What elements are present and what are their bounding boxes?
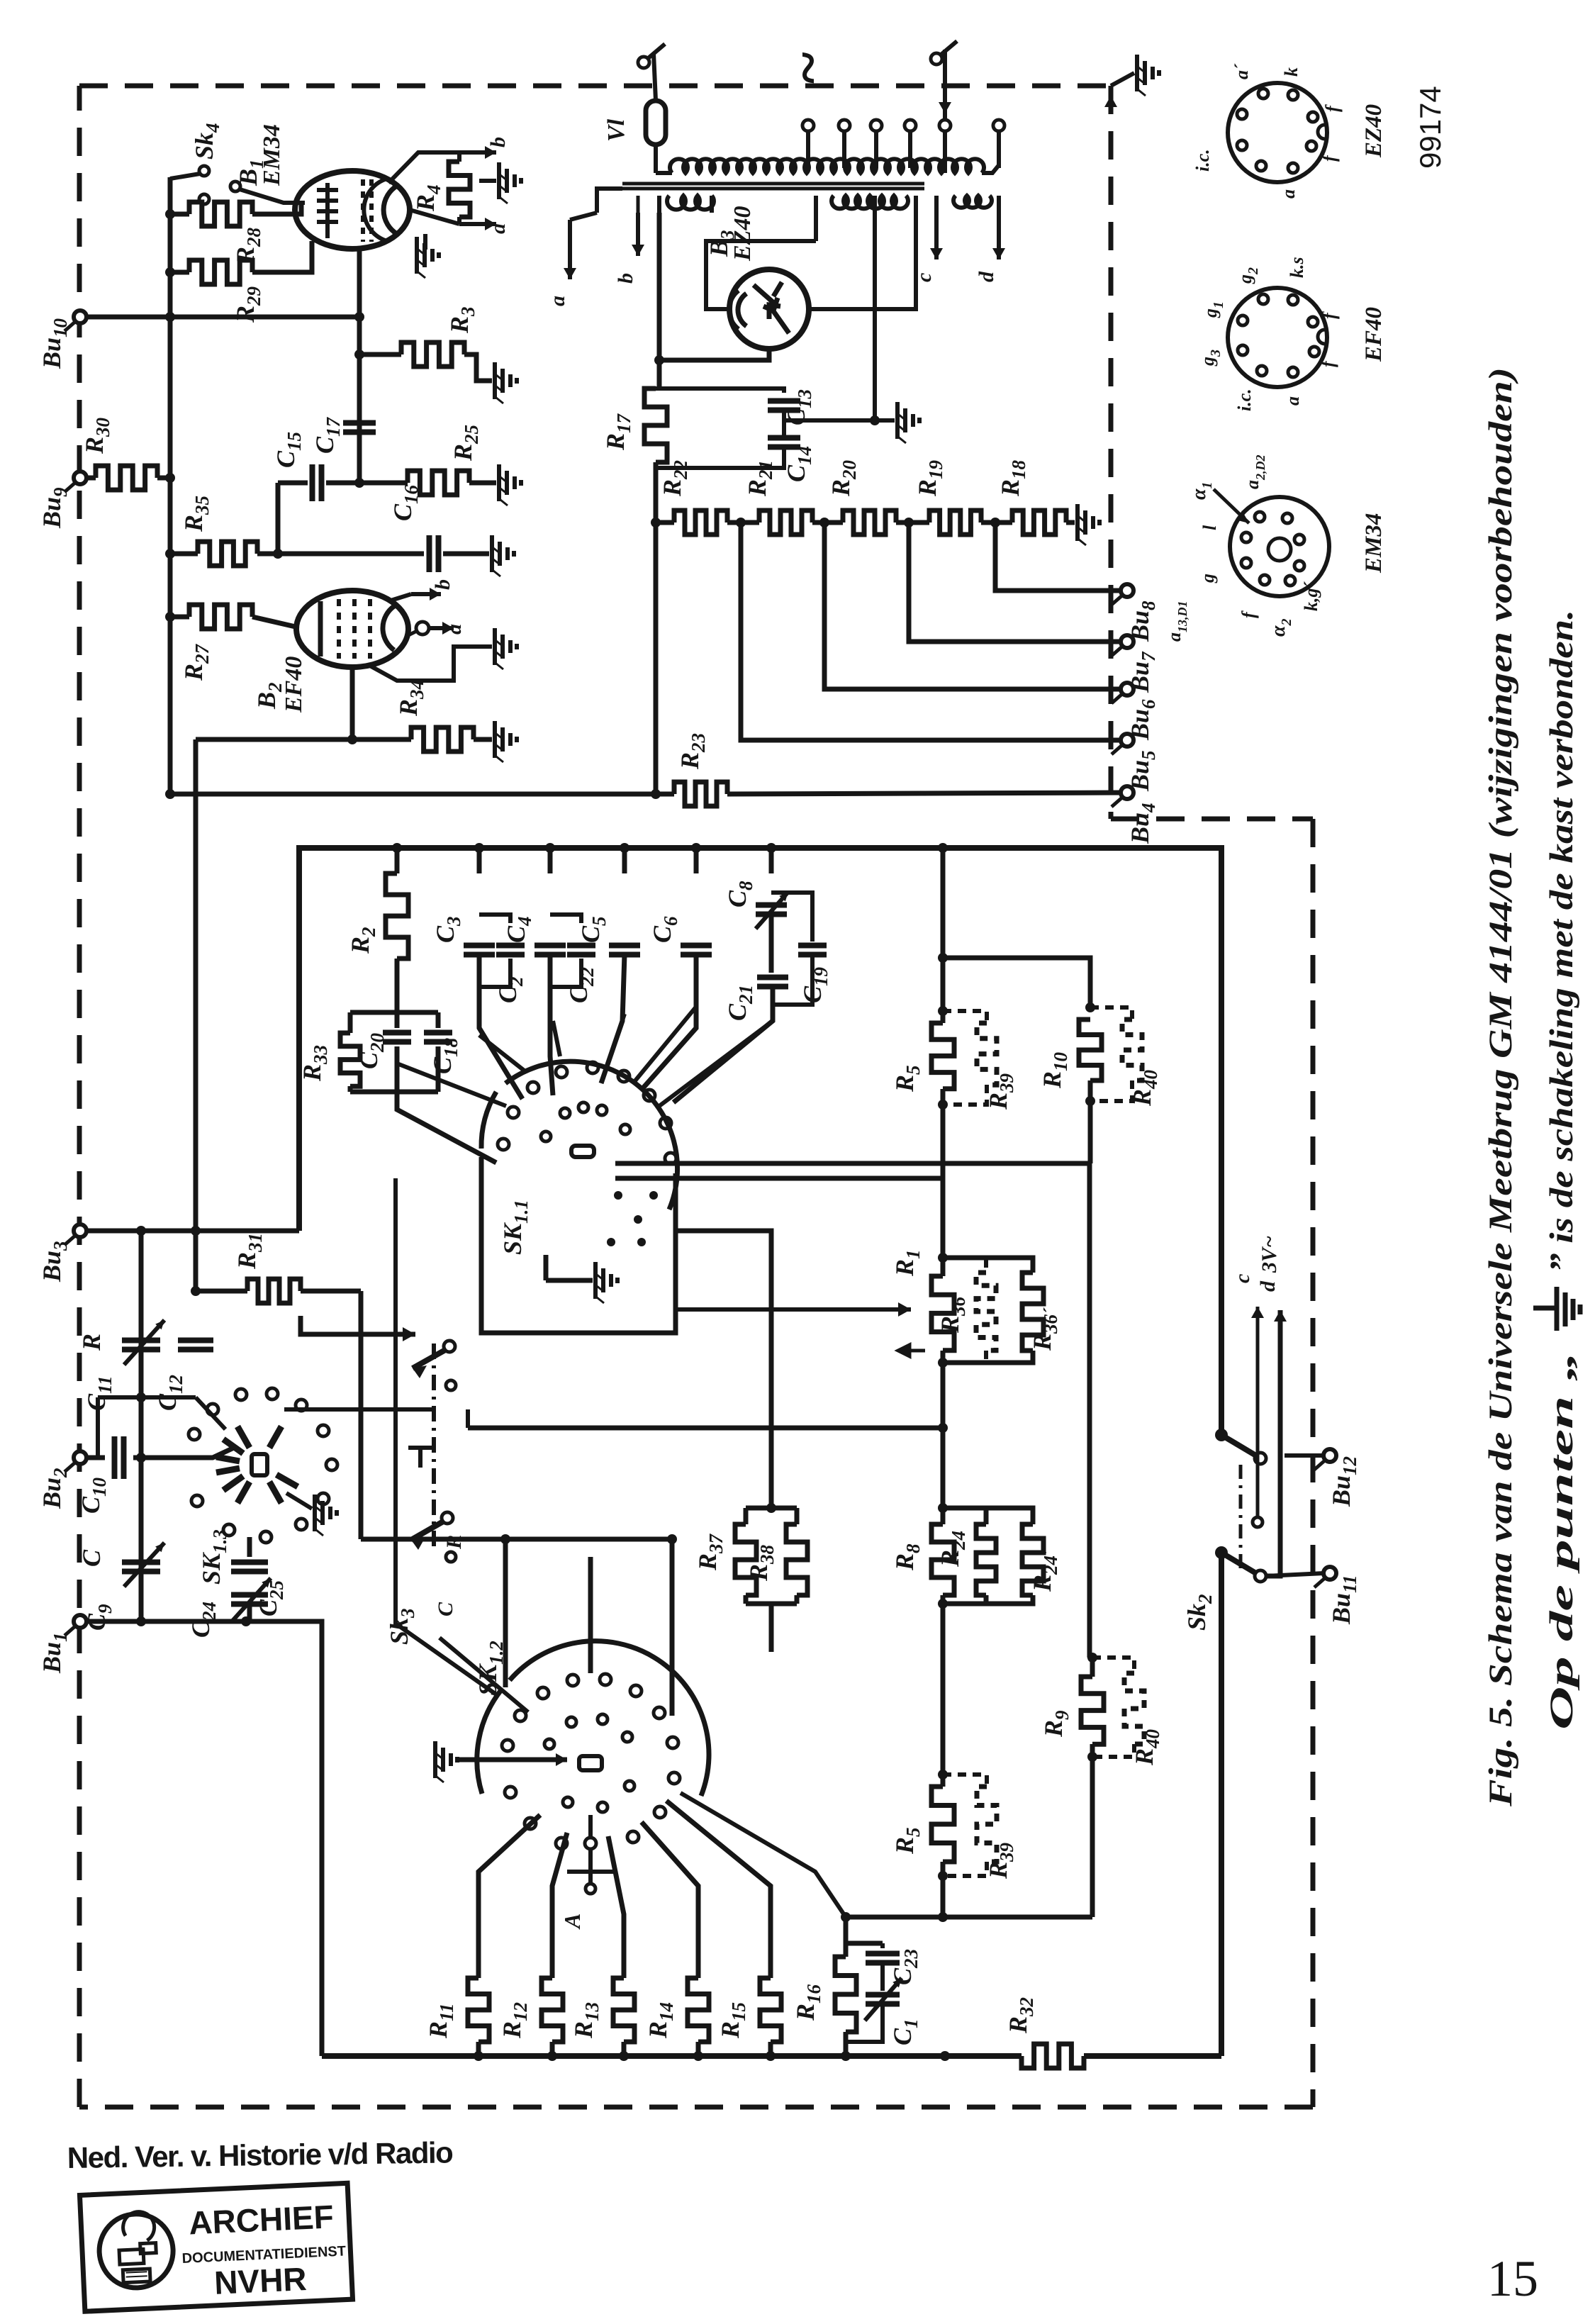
svg-text:c: c	[1231, 1274, 1254, 1283]
svg-text:R: R	[77, 1334, 106, 1351]
SK1.3 ground	[286, 1493, 312, 1509]
transformer taps	[802, 120, 814, 131]
right verticals down	[1087, 1163, 1092, 1658]
wire C15-R36 vertical	[276, 483, 281, 554]
capacitor C12	[178, 1341, 213, 1350]
terminal Bu5	[1121, 734, 1134, 747]
capacitor C22	[550, 915, 581, 923]
ground near R4	[479, 179, 496, 183]
svg-text:99174: 99174	[1414, 86, 1447, 169]
resistor R40 dashed lower	[1092, 1658, 1134, 1673]
capacitor C19 bracket	[771, 893, 812, 942]
resistor R39 dashed	[943, 1011, 987, 1023]
resistor R12	[552, 1833, 567, 1978]
wire B2 cathode down	[350, 667, 355, 739]
SK1.1 inner contacts	[614, 1191, 622, 1200]
SK1.3 wiring left row	[98, 1395, 196, 1400]
bottom bus	[322, 2053, 1022, 2059]
svg-text:k.s: k.s	[1287, 257, 1307, 278]
svg-text:a: a	[1282, 396, 1303, 406]
svg-text:k,g´: k,g´	[1301, 581, 1321, 612]
wire B1 cathode down	[357, 249, 362, 483]
diagonal feeds into SK1.2	[396, 1557, 496, 1694]
svg-text:A: A	[559, 1914, 585, 1930]
capacitor C2	[479, 915, 510, 923]
svg-text:Ned. Ver. v. Historie v/d Radi: Ned. Ver. v. Historie v/d Radio	[67, 2135, 454, 2174]
svg-text:Op de punten „: Op de punten „	[1543, 1351, 1580, 1730]
svg-text:a: a	[486, 223, 510, 234]
lead c	[934, 196, 939, 259]
right main vertical bus	[941, 848, 946, 1011]
svg-text:C: C	[77, 1549, 106, 1567]
output arrow b	[459, 150, 496, 155]
svg-text:i.c.: i.c.	[1234, 389, 1255, 411]
terminal Bu8	[1121, 584, 1134, 597]
wire SK1.3 lower to SK3	[284, 1407, 434, 1412]
wire to R9	[943, 1915, 1092, 1920]
svg-text:b: b	[486, 137, 510, 147]
capacitor C10	[86, 1456, 105, 1460]
wire SK1.1 box to R1	[676, 1307, 911, 1312]
secondary winding right	[953, 196, 992, 208]
lead b	[636, 213, 640, 256]
resistor R4	[457, 152, 461, 162]
resistor R9	[1090, 1757, 1095, 1917]
resistor R10	[1085, 1002, 1095, 1012]
svg-text:EZ40: EZ40	[729, 206, 756, 262]
svg-text:g: g	[1197, 574, 1218, 583]
resistor R15	[666, 1801, 771, 1978]
capacitor C24 variable	[231, 1595, 268, 1604]
wire B1 plate to b arrow	[388, 152, 459, 183]
ground mid supply	[784, 418, 895, 423]
resistor R5	[938, 1006, 948, 1016]
svg-text:EF40: EF40	[1361, 307, 1387, 362]
transformer primary coil	[656, 171, 672, 175]
mid horizontal wire	[468, 1426, 943, 1431]
wire Bu3 row	[86, 1229, 299, 1234]
SK1.2 A terminal	[588, 1815, 593, 1838]
long vertical from R31	[359, 1291, 364, 1539]
svg-text:Vl: Vl	[603, 118, 629, 142]
svg-text:d: d	[975, 271, 998, 282]
SK1.2 ground	[435, 1741, 457, 1778]
switch SK2	[1215, 1429, 1228, 1441]
Bu8 feed	[995, 523, 1121, 591]
capacitor C25	[247, 1537, 252, 1557]
svg-text:l: l	[1199, 525, 1220, 530]
capacitor C15	[278, 481, 308, 486]
capacitor C6	[681, 946, 712, 955]
capacitor C11 variable	[139, 1231, 144, 1621]
svg-text:a: a	[442, 624, 466, 635]
socket EM34	[1230, 497, 1329, 596]
archive stamp	[79, 2183, 352, 2311]
svg-text:a´: a´	[1231, 63, 1252, 79]
resistor R36 dashed	[943, 1258, 986, 1273]
svg-text:~: ~	[773, 52, 841, 84]
SK1.1 feed wires right	[615, 1161, 1090, 1166]
fan wires from contacts	[479, 1035, 526, 1072]
rotary switch SK1.2	[579, 1756, 602, 1770]
svg-text:C: C	[434, 1602, 457, 1616]
resistor R23	[674, 782, 727, 806]
ground at top right dashed corner	[1111, 73, 1134, 86]
chassis dashed border	[79, 84, 1111, 89]
fuse Vl	[646, 101, 666, 145]
R8/R24/R24p group	[941, 1428, 946, 1508]
resistor R34	[196, 737, 411, 742]
mains pin 2	[934, 41, 957, 60]
resistor R30	[86, 476, 96, 481]
capacitor C18	[436, 1012, 441, 1028]
svg-text:k: k	[1281, 67, 1302, 77]
capacitor C16	[430, 535, 439, 572]
terminal Bu11	[1266, 1573, 1324, 1576]
svg-text:a: a	[546, 296, 569, 306]
lead a	[597, 189, 622, 213]
svg-text:b: b	[431, 579, 454, 590]
main left bus wire	[168, 177, 173, 794]
resistor R36a	[170, 552, 198, 557]
resistor R14	[642, 1822, 698, 1978]
resistor R29	[170, 270, 189, 275]
lead d	[997, 196, 1001, 259]
capacitor C5	[609, 946, 640, 955]
svg-text:EM34: EM34	[1361, 513, 1387, 574]
wire B1 to a arrow	[410, 210, 459, 224]
svg-text:EF40: EF40	[281, 657, 307, 713]
resistor R32	[1022, 2044, 1084, 2068]
Bu7 feed	[909, 523, 1121, 642]
switch SK3	[432, 1343, 436, 1553]
caption ground glyph	[1533, 1287, 1580, 1331]
B3 cathode wire	[659, 349, 769, 360]
capacitor C13	[656, 389, 784, 393]
ground bracket from B2	[369, 647, 492, 681]
capacitor C3	[464, 946, 495, 955]
capacitor C20	[395, 1012, 400, 1028]
secondary winding mid	[832, 196, 908, 208]
rotary switch SK1.1	[571, 1146, 594, 1157]
resistor R3	[359, 352, 401, 357]
terminal Bu9	[74, 471, 86, 484]
capacitor mark near SK3	[408, 1448, 432, 1468]
diagonal fan to R16	[681, 1793, 846, 1917]
switch SK4	[170, 174, 200, 179]
SK1.1 ground	[546, 1278, 593, 1283]
capacitor C1 variable	[880, 1962, 885, 1991]
capacitor C4	[535, 946, 566, 955]
resistor R28	[170, 212, 189, 217]
tube B3 EZ40	[729, 269, 809, 349]
resistor R40 dashed	[1090, 1007, 1132, 1019]
B3 filament wires	[706, 241, 816, 309]
svg-text:3V~: 3V~	[1258, 1236, 1281, 1273]
svg-text:a: a	[1278, 189, 1299, 199]
bridge box right edge lower	[1219, 1555, 1224, 2056]
svg-text:Fig. 5. Schema van de Universe: Fig. 5. Schema van de Universele Meetbru…	[1482, 367, 1519, 1807]
secondary winding left	[667, 196, 714, 210]
resistor R17	[644, 389, 667, 462]
main bus row to R23	[170, 792, 674, 797]
capacitor C23	[880, 1943, 885, 1948]
terminal Bu3	[74, 1224, 86, 1237]
mains pin 1	[642, 44, 665, 64]
SK1.2 feed verticals	[503, 1539, 508, 1687]
socket EF40	[1228, 288, 1327, 387]
R37/R38 group	[746, 1506, 797, 1511]
HT rail	[657, 213, 662, 389]
socket EZ40	[1228, 83, 1327, 182]
resistor R33 group	[395, 959, 400, 1012]
resistor R27	[170, 615, 189, 620]
resistor R25	[408, 471, 469, 495]
vertical bus from Bu3 row	[194, 739, 198, 1291]
capacitor C14	[768, 438, 800, 447]
terminal Bu2	[74, 1451, 86, 1464]
arrow d	[1278, 1310, 1283, 1568]
wire SK1.3 to SK3 upper	[301, 1316, 415, 1334]
rotary switch SK1.3	[252, 1454, 267, 1475]
output arrow a	[459, 222, 496, 226]
Bu5 feed	[741, 523, 1121, 740]
bridge box top edge	[299, 848, 1221, 1432]
wire Bu1 row	[141, 1621, 322, 2056]
terminal Bu12	[1285, 1453, 1324, 1458]
tube B2 EF40	[296, 591, 408, 667]
bridge cap row verticals	[395, 848, 400, 873]
svg-text:NVHR: NVHR	[213, 2260, 308, 2301]
SK1.1 frame box	[481, 1157, 676, 1333]
svg-text:15: 15	[1487, 2250, 1538, 2307]
resistor R36p	[943, 1258, 1033, 1273]
terminal Bu6	[1121, 683, 1134, 695]
svg-text:EM34: EM34	[259, 124, 285, 186]
wire Bu10 row	[86, 315, 359, 320]
transformer core	[622, 184, 924, 189]
terminal Bu7	[1121, 635, 1134, 648]
second R5/R39 group	[941, 1775, 946, 1787]
svg-text:b: b	[614, 273, 637, 284]
capacitor C8 variable	[756, 905, 787, 915]
capacitor C9 variable	[86, 1619, 141, 1624]
ground below a wire	[423, 234, 427, 250]
dropper resistor row	[651, 518, 661, 527]
resistor R31	[191, 1286, 201, 1296]
svg-text:EZ40: EZ40	[1361, 104, 1387, 158]
R10 feed wire	[943, 958, 1090, 1007]
svg-text:d: d	[1256, 1280, 1280, 1292]
arrow c	[1253, 1517, 1263, 1527]
resistor R11	[478, 1815, 540, 1978]
capacitor C17	[343, 423, 376, 432]
wire R37 top row	[676, 1231, 771, 1508]
arrow b from B2	[388, 594, 411, 601]
terminal Bu4	[1121, 786, 1134, 799]
resistor R2	[386, 873, 408, 959]
svg-text:” is de schakeling met de kast: ” is de schakeling met de kast verbonden…	[1543, 610, 1580, 1273]
capacitor C21	[769, 914, 774, 973]
tube B1 EM34	[295, 171, 410, 249]
arrow a from B2	[416, 622, 429, 635]
potentiometer R1	[938, 1253, 948, 1263]
terminal Bu10	[74, 311, 86, 323]
terminal Bu1	[74, 1615, 86, 1628]
resistor R13	[608, 1836, 624, 1978]
R16 group	[844, 1917, 849, 1943]
svg-text:i.c.: i.c.	[1192, 149, 1213, 172]
Bu6 feed	[824, 523, 1121, 689]
svg-text:ARCHIEF: ARCHIEF	[188, 2198, 335, 2241]
